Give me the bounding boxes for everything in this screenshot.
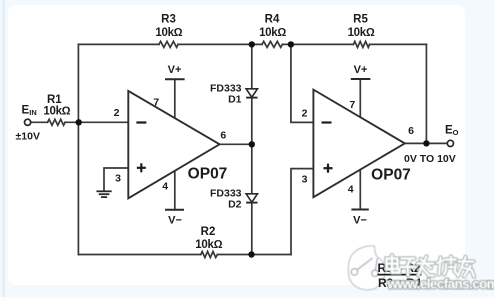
svg-text:6: 6 bbox=[408, 125, 414, 137]
svg-text:R1: R1 bbox=[47, 94, 62, 106]
svg-text:OP07: OP07 bbox=[371, 167, 411, 184]
wire: input to R1 bbox=[31, 121, 48, 123]
svg-text:7: 7 bbox=[153, 96, 159, 108]
wire: bottom rail left segment bbox=[78, 254, 200, 256]
wire: diode branch D1 to node bbox=[251, 98, 253, 194]
svg-text:V+: V+ bbox=[168, 64, 182, 76]
node: top rail D1 branch bbox=[249, 41, 255, 47]
node: U1 output bbox=[249, 141, 255, 147]
svg-text:2: 2 bbox=[114, 107, 120, 119]
svg-text:4: 4 bbox=[162, 180, 168, 192]
wire: left vertical bbox=[77, 44, 79, 254]
label EO bbox=[445, 125, 459, 138]
input terminal bbox=[25, 119, 31, 125]
node: top rail R4/R5 bbox=[288, 41, 294, 47]
svg-text:7: 7 bbox=[349, 99, 355, 111]
resistor R4 bbox=[262, 41, 282, 47]
wire: U2 pin 3 to bottom rail bbox=[291, 169, 313, 255]
svg-text:R3: R3 bbox=[161, 14, 176, 26]
node: U2 output feedback bbox=[423, 140, 429, 146]
wire: top rail left segment bbox=[78, 43, 159, 45]
resistor R2 bbox=[201, 252, 218, 258]
ground bbox=[96, 191, 111, 197]
svg-text:10kΩ: 10kΩ bbox=[259, 27, 286, 39]
svg-text:D2: D2 bbox=[228, 198, 242, 210]
wire: top rail right segment bbox=[370, 43, 427, 45]
svg-text:3: 3 bbox=[302, 174, 308, 186]
wire: diode branch D2 to bottom bbox=[251, 203, 253, 255]
svg-text:10kΩ: 10kΩ bbox=[43, 106, 70, 118]
wire: U2 pin 4 bbox=[359, 170, 361, 210]
svg-text:V−: V− bbox=[168, 215, 182, 227]
op-amp U2 bbox=[313, 90, 410, 198]
svg-text:6: 6 bbox=[220, 130, 226, 142]
diode D1 bbox=[246, 89, 257, 98]
wire: bottom rail right segment bbox=[217, 254, 291, 256]
wire: diode branch upper bbox=[251, 44, 253, 88]
wire: node to U2 pin 2 bbox=[291, 44, 314, 122]
wire: right vertical feedback bbox=[425, 44, 427, 143]
wire: U1 pin 4 bbox=[174, 171, 176, 210]
watermark chinese glyphs bbox=[387, 255, 475, 277]
output terminal bbox=[447, 140, 453, 146]
V+ rail U1 bbox=[165, 78, 185, 80]
svg-text:O: O bbox=[453, 128, 459, 137]
wire: top rail mid segment bbox=[178, 43, 262, 45]
node: bottom rail D2 branch bbox=[248, 251, 254, 257]
label FD333 D2 bbox=[210, 187, 242, 210]
wire: U1 pin 7 bbox=[174, 79, 176, 118]
svg-text:3: 3 bbox=[115, 173, 121, 185]
svg-text:R2: R2 bbox=[201, 226, 216, 238]
svg-text:IN: IN bbox=[29, 108, 37, 117]
svg-text:E: E bbox=[22, 104, 30, 116]
svg-text:4: 4 bbox=[348, 184, 354, 196]
wire: R1 to op-amp U1 pin 2 bbox=[65, 121, 128, 123]
svg-text:V+: V+ bbox=[354, 64, 368, 76]
svg-text:R4: R4 bbox=[265, 14, 280, 26]
V- rail U1 bbox=[165, 209, 184, 211]
resistor R3 bbox=[159, 41, 178, 47]
label EIN bbox=[22, 104, 37, 117]
svg-text:D1: D1 bbox=[228, 93, 242, 105]
resistor R5 bbox=[353, 41, 369, 47]
svg-text:OP07: OP07 bbox=[188, 166, 228, 183]
svg-text:10kΩ: 10kΩ bbox=[155, 27, 182, 39]
node: input junction bbox=[76, 119, 82, 125]
wire: U1 output bbox=[220, 143, 252, 145]
V- rail U2 bbox=[351, 209, 368, 211]
wire: top rail segment R4 to R5 bbox=[282, 43, 353, 45]
svg-text:10kΩ: 10kΩ bbox=[348, 27, 375, 39]
svg-text:www.elecfans.com: www.elecfans.com bbox=[387, 277, 494, 292]
svg-text:±10V: ±10V bbox=[16, 130, 40, 142]
resistor R1 bbox=[48, 119, 66, 125]
op-amp U1 bbox=[128, 91, 227, 198]
diode D2 bbox=[246, 194, 257, 203]
wire: U2 output bbox=[405, 142, 447, 144]
wire: U2 pin 7 bbox=[359, 79, 361, 118]
label FD333 D1 bbox=[210, 82, 242, 105]
wire: U1 pin 3 to ground bbox=[104, 168, 128, 191]
V+ rail U2 bbox=[351, 78, 371, 80]
svg-text:V−: V− bbox=[353, 215, 367, 227]
svg-text:2: 2 bbox=[302, 108, 308, 120]
svg-text:R5: R5 bbox=[353, 14, 368, 26]
svg-text:10kΩ: 10kΩ bbox=[195, 239, 222, 251]
equation fraction bar bbox=[378, 274, 422, 276]
watermark logo bbox=[348, 246, 385, 290]
svg-text:0V TO 10V: 0V TO 10V bbox=[404, 153, 456, 165]
